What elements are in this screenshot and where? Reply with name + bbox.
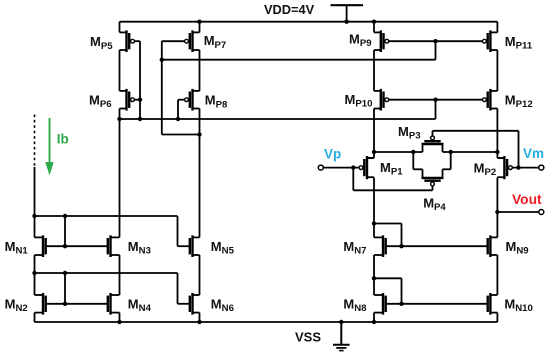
wire: MP1 source stub [367, 152, 374, 158]
wire: MP3 left lead [422, 144, 424, 152]
junction: gate tap on lower bus [63, 271, 67, 275]
svg-text:VSS: VSS [295, 330, 321, 345]
svg-text:Vout: Vout [512, 192, 542, 207]
wire: MP11 drain to MP12 source [496, 50, 498, 91]
wire: MP4 left lead [413, 152, 422, 178]
svg-text:Vm: Vm [523, 146, 544, 161]
svg-text:Vp: Vp [324, 147, 341, 162]
junction: MP3/MP4 left node [411, 150, 415, 154]
wire: MN1 source to MN2 drain [34, 255, 36, 295]
transistor MP7 [185, 30, 200, 52]
wire: MP3 right lead [442, 144, 444, 152]
wire: MN9 source to MN10 drain [496, 255, 498, 295]
transistor MP4 [422, 178, 444, 186]
wire: MN7-MN9 gate line [386, 245, 488, 247]
transistor MN2 [35, 293, 46, 315]
wire: MP2 source stub [497, 152, 504, 158]
wire: MN4 source to VSS [119, 313, 121, 322]
wire: MP7 gate feedback [162, 41, 200, 134]
transistor MP2 [497, 156, 512, 179]
transistor MN8 [374, 293, 386, 315]
transistor MN1 [35, 235, 46, 257]
transistor MN9 [488, 235, 498, 257]
wire: Vp to MP1 gate [323, 167, 359, 169]
wire: MN6 source to VSS [199, 313, 201, 322]
junction: MN7 drain node [372, 221, 376, 225]
wire: MN7 source to MN8 drain [373, 255, 375, 295]
ground symbol [333, 322, 350, 351]
junction: MP8 gate on bias bus B [176, 117, 180, 121]
wire: MP9 drain to MP10 source [373, 50, 375, 91]
wire: MP7 drain to MP8 source [199, 50, 201, 91]
wire: MP3/MP4 right to MP2 source rail [443, 151, 498, 153]
transistor MP3 [422, 136, 444, 144]
wire: MN2-MN4 gate wire [46, 303, 108, 305]
junction: MP8 drain / MP7 gate feedback [197, 132, 201, 136]
node Vp terminal [318, 165, 323, 170]
node Vm terminal [539, 165, 544, 170]
wire: MP4 right lead [443, 152, 451, 178]
wire: MP8 drain to MN5 drain [199, 109, 201, 238]
wire: MP1 source rail to MP3/MP4 left [374, 151, 423, 153]
junction: MP9 source on VDD rail [372, 20, 376, 24]
wire: MN5 gate lead [178, 245, 190, 247]
wire: MN8 diode connection [374, 278, 402, 304]
wire: MN7 diode connection [374, 224, 402, 247]
wire: gate tap vertical MN1/MN3 [64, 216, 66, 246]
wire: bias bus lower (MN2/MN4/MN6 gates) [35, 273, 178, 304]
wire: MP10 drain to MP1 source node [373, 109, 375, 153]
wire: MP5 drain to MP6 source [119, 50, 121, 91]
transistor MN5 [190, 235, 200, 257]
junction: MP3/MP4 right node [449, 150, 453, 154]
junction: left column on lower bus [32, 271, 36, 275]
transistor MP9 [374, 30, 389, 52]
wire: MN10 source to VSS [496, 313, 498, 322]
junction: MP6 gate on gate line [138, 98, 142, 102]
transistor MN7 [374, 235, 386, 257]
junction: MN8 on VSS rail [372, 320, 376, 324]
wire: bias bus upper (MN1/MN3/MN5 gates) [35, 216, 178, 246]
svg-text:VDD=4V: VDD=4V [264, 2, 315, 17]
junction: gate tap on upper bus [63, 214, 67, 218]
wire: MN6 gate lead [178, 303, 190, 305]
transistor MN3 [108, 235, 120, 257]
wire: Ib lead into node [34, 167, 36, 237]
wire: bias line A (MP7/MP9/MP11 gates) [162, 59, 436, 61]
transistor MN6 [190, 293, 200, 315]
wire: bias bus B (MP6/MP8/MP10/MP12 gates) [120, 100, 436, 119]
current source Ib dashed lead [34, 115, 36, 168]
wire: MP7 source lead [199, 22, 201, 33]
junction: MP5/6 gate line on bias bus B [138, 117, 142, 121]
junction: MN4 on VSS rail [117, 320, 121, 324]
wire: MP10-MP12 gate line [389, 99, 482, 101]
junction: VDD symbol to rail [344, 20, 348, 24]
transistor MP10 [374, 89, 389, 111]
junction: MP10/MP12 gate line tap [433, 98, 437, 102]
wire: gate tap vertical MN2/MN4 [64, 273, 66, 304]
junction: MN8 gate node [399, 302, 403, 306]
wire: MN2 source to VSS [34, 313, 36, 322]
transistor MP8 [185, 89, 200, 111]
transistor MP12 [483, 89, 498, 111]
wire: MP11 source lead [496, 22, 498, 33]
junction: MP9/MP11 gate line tap [433, 39, 437, 43]
junction: Vm / MP3 gate tap [516, 165, 520, 169]
wire: Vout lead [497, 211, 538, 213]
junction: tap on MN1-MN3 gate wire [63, 244, 67, 248]
junction: tap on MN2-MN4 gate wire [63, 302, 67, 306]
power VDD symbol [331, 5, 364, 22]
transistor MP5 [120, 30, 135, 52]
wire: MP3 gate to Vm node [433, 131, 519, 168]
junction: Vout node [495, 210, 499, 214]
wire: Vout node to MN9 drain [496, 212, 498, 237]
junction: MP7 gate / bias line A [160, 58, 164, 62]
wire: VDD rail [120, 21, 498, 23]
svg-text:Ib: Ib [57, 132, 69, 147]
junction: MP12 drain / MP2 source [495, 150, 499, 154]
junction: MN7 gate node [399, 244, 403, 248]
current arrow Ib [45, 118, 53, 176]
wire: MP9 source lead [373, 22, 375, 33]
wire: VSS rail [35, 321, 498, 323]
wire: MN3 source to MN4 drain [119, 255, 121, 295]
wire: MP12 drain to MP2 source node [496, 109, 498, 153]
wire: MP9-MP11 gate line [389, 41, 482, 60]
junction: MN8 drain node [372, 276, 376, 280]
transistor MN4 [108, 293, 120, 315]
wire: MN8 source to VSS [373, 313, 375, 322]
wire: MN1-MN3 gate wire [46, 245, 108, 247]
junction: Ib node on upper bus [32, 214, 36, 218]
wire: MP4 gate to Vp node [353, 168, 432, 191]
junction: MP10 drain / MP1 source [372, 150, 376, 154]
wire: MP2 drain lead to Vout node [496, 178, 498, 213]
wire: MP1 drain lead to MN7 [373, 178, 375, 238]
transistor MN10 [488, 293, 498, 315]
junction: MP7 source on VDD rail [197, 20, 201, 24]
wire: MP5-MP6 gate line [135, 41, 140, 119]
transistor MP11 [483, 30, 498, 52]
junction: ground to VSS rail [339, 320, 343, 324]
junction: MN6 on VSS rail [197, 320, 201, 324]
wire: MP6 drain to MN3 drain [119, 109, 121, 238]
transistor MP6 [120, 89, 135, 111]
wire: MP8 gate lead [178, 100, 184, 119]
wire: Vm to MP2 gate [513, 167, 539, 169]
junction: Vp / MP4 gate tap [351, 165, 355, 169]
transistor MP1 [359, 156, 374, 179]
wire: MN8-MN10 gate line [386, 303, 488, 305]
junction: MP6 drain on bias bus B [117, 117, 121, 121]
wire: MP5 source lead [119, 22, 121, 33]
node Vout terminal [539, 210, 544, 215]
wire: MN5 source to MN6 drain [199, 255, 201, 295]
